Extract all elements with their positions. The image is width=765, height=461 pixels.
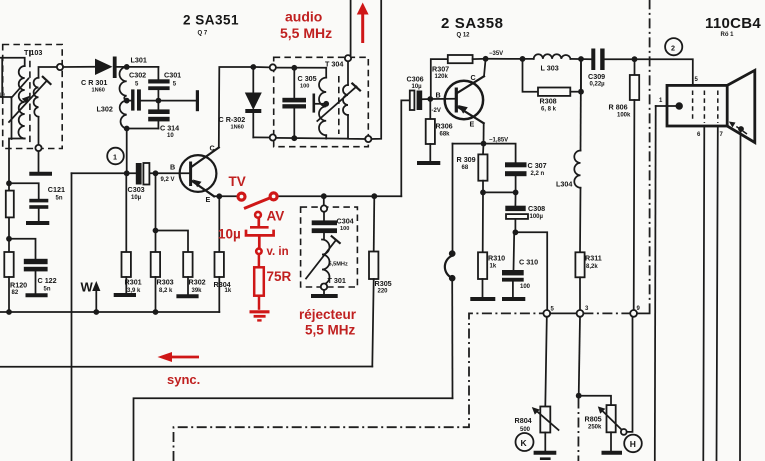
- inductor L301: [120, 67, 127, 101]
- wire CR302 bottom to T304 box: [253, 136, 269, 138]
- svg-text:68k: 68k: [440, 132, 451, 138]
- svg-text:H: H: [630, 439, 636, 449]
- T304 internal top wire: [276, 67, 326, 69]
- resistor R120: [4, 252, 27, 312]
- ground C121: [26, 221, 49, 225]
- svg-text:110CB4: 110CB4: [705, 15, 761, 32]
- svg-text:5n: 5n: [44, 287, 51, 293]
- ground R805: [602, 451, 623, 455]
- svg-text:5,5 MHz: 5,5 MHz: [305, 323, 356, 338]
- svg-text:100µ: 100µ: [530, 214, 544, 220]
- svg-text:2 SA351: 2 SA351: [183, 13, 239, 28]
- svg-text:75R: 75R: [267, 269, 292, 284]
- svg-text:1: 1: [113, 153, 117, 162]
- wire audio line B to top: [371, 0, 381, 139]
- wire sync line: [0, 366, 372, 368]
- red switch AV-side contact: [270, 193, 277, 200]
- svg-text:82: 82: [12, 290, 19, 296]
- W arrow: [81, 280, 101, 313]
- resistor R305: [369, 196, 392, 366]
- T304 variable arrow: [317, 84, 360, 122]
- svg-text:C 122: C 122: [38, 276, 57, 285]
- wire audio line A to top: [350, 0, 352, 55]
- svg-text:audio: audio: [285, 9, 322, 25]
- svg-text:C 314: C 314: [160, 124, 179, 133]
- svg-text:sync.: sync.: [167, 372, 200, 387]
- red switch TV contact: [238, 193, 245, 200]
- trimmer capacitor T304: [314, 94, 329, 113]
- wire L bottom-left solid: [134, 398, 453, 461]
- transistor Q12: [445, 73, 484, 129]
- svg-text:8,2 k: 8,2 k: [159, 288, 173, 294]
- svg-text:L301: L301: [131, 56, 147, 65]
- wire L303 right to C309: [570, 58, 591, 60]
- wire R308 right riser: [580, 59, 582, 92]
- ground R301: [114, 293, 136, 297]
- svg-text:1N60: 1N60: [231, 125, 244, 131]
- transformer T304 dashed box: [274, 57, 369, 146]
- svg-text:−35V: −35V: [489, 51, 503, 57]
- svg-text:B: B: [436, 91, 441, 100]
- bus junction circle 5: [543, 310, 550, 317]
- wire secondary bottom: [38, 117, 40, 145]
- T103 primary bottom lead: [9, 139, 25, 253]
- svg-text:C303: C303: [128, 185, 145, 194]
- resistor R308: [523, 59, 582, 113]
- red ground: [250, 312, 270, 321]
- svg-text:R120: R120: [10, 281, 27, 290]
- svg-text:10: 10: [167, 133, 174, 139]
- capacitor C303: [128, 163, 191, 201]
- wire CR302 top to T304 box: [256, 66, 270, 68]
- T103 variable arrow: [9, 77, 51, 122]
- wire Q12 emitter drop: [483, 123, 485, 143]
- node terminal T301 top: [321, 205, 327, 211]
- resistor R310: [478, 192, 505, 296]
- T304 internal bottom wire: [276, 137, 348, 140]
- svg-text:L304: L304: [556, 180, 572, 189]
- svg-text:R310: R310: [488, 254, 505, 263]
- svg-text:120k: 120k: [435, 74, 449, 80]
- wire to speaker pin5: [635, 59, 693, 85]
- svg-text:C 307: C 307: [528, 161, 547, 170]
- wire node1 row: [72, 172, 137, 174]
- svg-text:B: B: [170, 163, 175, 172]
- svg-text:6, 8 k: 6, 8 k: [541, 107, 557, 113]
- svg-text:Q 7: Q 7: [198, 31, 208, 37]
- svg-text:T 304: T 304: [325, 60, 343, 69]
- svg-text:19: 19: [0, 93, 5, 99]
- T301 variable inductor: [306, 236, 348, 285]
- svg-text:C 310: C 310: [519, 258, 538, 267]
- wire terminal to CR301: [63, 66, 95, 68]
- red switch lever: [244, 198, 271, 209]
- wire circle3 down to R805 node: [579, 317, 580, 396]
- red resistor 75R: [254, 254, 264, 310]
- red node v.in: [256, 249, 261, 254]
- svg-text:W: W: [81, 280, 94, 295]
- capacitor C306: [407, 75, 431, 111]
- svg-text:R308: R308: [540, 97, 557, 106]
- bus wire 5-3: [550, 312, 576, 314]
- svg-text:100: 100: [520, 284, 531, 290]
- ground T103: [29, 172, 52, 176]
- svg-text:2: 2: [671, 43, 675, 52]
- rejecteur T301 dashed box: [301, 207, 358, 287]
- capacitor C302 (series): [127, 71, 197, 111]
- svg-text:Q 12: Q 12: [457, 33, 471, 39]
- speaker cone arrow: [729, 122, 747, 461]
- inductor L304: [556, 59, 581, 189]
- svg-text:1k: 1k: [490, 264, 497, 270]
- svg-text:100k: 100k: [617, 113, 631, 119]
- svg-text:5,5 MHz: 5,5 MHz: [280, 25, 332, 41]
- svg-text:10µ: 10µ: [218, 227, 241, 242]
- svg-text:8,2k: 8,2k: [586, 264, 598, 270]
- svg-text:C309: C309: [588, 72, 605, 81]
- resistor R311: [575, 188, 601, 310]
- svg-text:R305: R305: [375, 279, 392, 288]
- bus corner to dash-dot riser: [637, 312, 650, 314]
- wire Q7 collector riser: [219, 67, 254, 148]
- node 1 circled: [107, 148, 124, 165]
- inductor L302: [120, 101, 127, 129]
- node terminal circle T103 top: [57, 64, 63, 70]
- svg-text:C121: C121: [48, 185, 65, 194]
- wire emitter node right to C307: [484, 144, 516, 163]
- bus junction circle 9: [630, 310, 637, 317]
- wire C314 bottom to L302 bottom: [127, 128, 159, 130]
- resistor R806: [609, 59, 640, 310]
- svg-text:10µ: 10µ: [131, 195, 142, 201]
- node junction: [124, 98, 130, 104]
- ground R306: [417, 161, 440, 165]
- transformer T103 dashed box: [3, 45, 63, 149]
- svg-text:TV: TV: [229, 174, 246, 189]
- svg-text:R303: R303: [157, 278, 174, 287]
- svg-text:C: C: [210, 144, 215, 153]
- resistor R303: [151, 173, 174, 312]
- wire L302 node down to node 1: [126, 129, 128, 174]
- svg-text:R307: R307: [432, 65, 449, 74]
- svg-text:C306: C306: [407, 75, 424, 84]
- svg-text:68: 68: [462, 165, 469, 171]
- svg-text:2,2 n: 2,2 n: [531, 171, 545, 177]
- capacitor C308: [505, 192, 545, 232]
- svg-text:R 309: R 309: [457, 155, 476, 164]
- svg-text:-2V: -2V: [432, 108, 441, 114]
- bus junction circle 3: [577, 310, 584, 317]
- inductor L303: [534, 54, 571, 72]
- T103 primary winding: [18, 66, 24, 139]
- connector end bar: [196, 90, 199, 111]
- svg-text:500: 500: [520, 427, 531, 433]
- speaker pin 6: [703, 126, 704, 461]
- wire emitter node left to hop line: [453, 143, 484, 145]
- svg-text:10µ: 10µ: [412, 84, 423, 90]
- svg-text:C308: C308: [528, 204, 545, 213]
- node terminal T304 left bottom: [270, 134, 276, 140]
- svg-text:K: K: [521, 438, 528, 448]
- resistor R307: [431, 55, 486, 99]
- wire top-left to T103 primary: [0, 58, 25, 66]
- wire secondary top to terminal: [39, 67, 58, 78]
- wire emitter row to T301: [323, 196, 325, 205]
- dash-dot below R805 node: [577, 399, 579, 461]
- node junction: [124, 64, 130, 70]
- potentiometer R804: [515, 317, 559, 451]
- speaker pin 1: [655, 98, 683, 461]
- ground R302: [176, 294, 198, 298]
- svg-text:L 303: L 303: [541, 64, 559, 73]
- svg-text:E: E: [206, 195, 211, 204]
- svg-text:T 301: T 301: [328, 276, 346, 285]
- wire left edge: [1, 58, 3, 97]
- resistor R306: [426, 99, 453, 161]
- svg-text:250k: 250k: [588, 425, 602, 431]
- dash-dot main vertical: [649, 0, 651, 313]
- svg-text:100: 100: [300, 84, 309, 90]
- red node AV: [255, 212, 261, 218]
- node 2 circled: [665, 38, 682, 55]
- svg-text:L302: L302: [97, 105, 113, 114]
- svg-text:réjecteur: réjecteur: [299, 307, 357, 322]
- wire R309/C307 junction row: [483, 191, 516, 193]
- svg-text:C R-302: C R-302: [219, 115, 246, 124]
- svg-text:R804: R804: [515, 416, 532, 425]
- dash-dot bus lower: [174, 313, 547, 461]
- capacitor C301: [148, 67, 181, 101]
- svg-text:R306: R306: [436, 122, 453, 131]
- svg-text:0,22µ: 0,22µ: [590, 82, 606, 88]
- svg-text:1N60: 1N60: [92, 88, 105, 94]
- wire left edge stub: [0, 97, 12, 139]
- svg-text:v. in: v. in: [267, 246, 289, 258]
- wire Q7 emitter row (left of switch): [214, 195, 237, 197]
- svg-text:C: C: [471, 73, 476, 82]
- svg-text:AV: AV: [267, 209, 285, 224]
- svg-text:R805: R805: [585, 415, 602, 424]
- svg-text:220: 220: [378, 289, 389, 295]
- svg-text:R311: R311: [585, 254, 602, 263]
- node K circled: [516, 433, 534, 451]
- diode CR302: [219, 64, 262, 137]
- wire B node to Q12 base: [430, 98, 455, 100]
- hop connector line: [445, 144, 456, 399]
- capacitor C121: [6, 180, 65, 221]
- svg-text:5n: 5n: [56, 196, 63, 202]
- red capacitor 10u: [246, 218, 274, 249]
- svg-text:C R 301: C R 301: [81, 78, 107, 87]
- svg-text:−1,85V: −1,85V: [489, 138, 508, 144]
- ground R310: [470, 297, 495, 301]
- svg-text:R 806: R 806: [609, 103, 628, 112]
- T304 coupling winding: [343, 61, 365, 139]
- bus wire 3-9 dash-dot: [583, 312, 630, 314]
- T103 secondary winding: [34, 78, 39, 117]
- ground C122: [26, 293, 48, 297]
- diode CR301: [81, 57, 117, 94]
- speaker pin 7: [717, 126, 718, 461]
- resistor R309: [457, 144, 488, 193]
- resistor R119 (unlabeled, left edge): [6, 191, 14, 218]
- svg-text:C 305: C 305: [298, 74, 317, 83]
- resistor R302: [156, 231, 206, 295]
- red audio arrow: [357, 3, 369, 44]
- capacitor C304: [312, 212, 354, 240]
- svg-text:1k: 1k: [225, 288, 232, 294]
- wire C306 riser from emitter row: [401, 100, 409, 196]
- svg-text:R302: R302: [189, 278, 206, 287]
- wire Q7 emitter row (right of switch): [278, 195, 401, 197]
- ground R804: [534, 451, 557, 455]
- wire -35V rail: [486, 58, 534, 60]
- svg-text:Rö 1: Rö 1: [721, 32, 735, 38]
- node junction: [156, 98, 162, 104]
- node junction: [124, 126, 130, 132]
- svg-text:100: 100: [340, 226, 349, 232]
- svg-text:39k: 39k: [192, 288, 203, 294]
- svg-text:T 103: T 103: [24, 48, 42, 57]
- node terminal T301 bottom: [321, 284, 327, 290]
- svg-text:C301: C301: [164, 71, 181, 80]
- wire to ground: [38, 151, 40, 171]
- capacitor C310: [502, 232, 538, 296]
- wire CR301 to L301 node: [116, 66, 158, 68]
- node terminal T304 right bottom: [365, 136, 371, 142]
- svg-text:5,5MHz: 5,5MHz: [329, 262, 348, 268]
- svg-text:E: E: [470, 120, 475, 129]
- T304 tuned winding: [319, 68, 339, 139]
- ground T301: [311, 294, 338, 298]
- wire T301 to ground: [323, 290, 325, 294]
- capacitor C314: [148, 101, 179, 139]
- red sync arrow: [158, 352, 200, 362]
- long vertical wire left: [71, 173, 73, 461]
- node terminal T304 left top: [270, 64, 276, 70]
- node terminal T304 top: [345, 55, 351, 61]
- capacitor C307: [505, 161, 547, 193]
- transistor Q7: [161, 144, 219, 205]
- svg-text:C304: C304: [337, 217, 354, 226]
- resistor R304: [214, 196, 232, 312]
- svg-text:R301: R301: [125, 278, 142, 287]
- node H circled: [624, 435, 642, 453]
- capacitor C122: [6, 236, 57, 293]
- capacitor C305: [282, 65, 316, 141]
- wire C308 node to bus circle 5: [515, 232, 547, 310]
- wire Q12 collector riser: [484, 59, 486, 77]
- resistor R301: [122, 173, 142, 294]
- potentiometer R805: [579, 317, 633, 451]
- bottom bus wire: [0, 311, 219, 313]
- svg-text:9,2 V: 9,2 V: [161, 177, 175, 183]
- loudspeaker 110CB4: [667, 70, 755, 142]
- trimmer C119 arrow (cut off): [11, 79, 28, 98]
- capacitor C309: [588, 49, 635, 88]
- svg-text:C302: C302: [129, 71, 146, 80]
- ground C310: [502, 297, 525, 301]
- node terminal circle T103 bottom: [35, 145, 41, 151]
- svg-text:2 SA358: 2 SA358: [441, 15, 504, 32]
